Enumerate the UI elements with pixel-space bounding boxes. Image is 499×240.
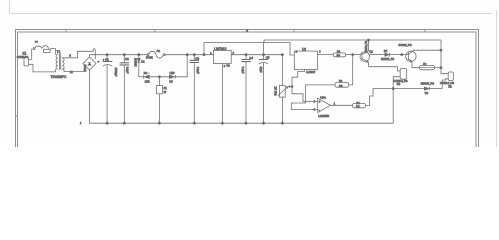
svg-text:2: 2 bbox=[296, 52, 298, 54]
svg-text:+ C1: + C1 bbox=[103, 57, 110, 61]
svg-text:+: + bbox=[319, 100, 321, 104]
svg-text:-: - bbox=[319, 108, 320, 112]
svg-text:F1: F1 bbox=[157, 49, 161, 53]
svg-text:1N4007_PG: 1N4007_PG bbox=[381, 58, 394, 61]
svg-text:LED: LED bbox=[170, 72, 175, 75]
svg-text:BD243_PG: BD243_PG bbox=[366, 41, 368, 53]
svg-text:8: 8 bbox=[69, 54, 71, 58]
svg-text:BC328_PG: BC328_PG bbox=[399, 43, 412, 47]
svg-text:D3: D3 bbox=[170, 81, 174, 84]
svg-text:K2: K2 bbox=[448, 84, 452, 88]
svg-text:LM317: LM317 bbox=[307, 70, 316, 74]
svg-text:+: + bbox=[98, 60, 100, 64]
svg-text:TRANSFO: TRANSFO bbox=[51, 75, 67, 79]
svg-text:LM358N: LM358N bbox=[318, 114, 329, 118]
svg-text:U3A: U3A bbox=[320, 95, 326, 99]
svg-text:K3: K3 bbox=[397, 82, 401, 86]
svg-text:47µF: 47µF bbox=[259, 67, 263, 73]
svg-text:1N4007_PG: 1N4007_PG bbox=[421, 83, 434, 86]
svg-text:1N4148: 1N4148 bbox=[134, 57, 137, 66]
svg-text:2: 2 bbox=[314, 110, 316, 112]
svg-text:3: 3 bbox=[319, 52, 321, 54]
svg-text:C2: C2 bbox=[125, 57, 129, 61]
svg-text:0.1µF: 0.1µF bbox=[241, 67, 245, 74]
svg-text:D5: D5 bbox=[384, 50, 388, 53]
svg-text:FUSE: FUSE bbox=[146, 57, 153, 60]
svg-text:1k: 1k bbox=[164, 91, 167, 94]
svg-text:0.1µF: 0.1µF bbox=[196, 67, 200, 74]
svg-text:LED: LED bbox=[145, 81, 150, 84]
svg-text:3: 3 bbox=[246, 29, 248, 33]
svg-text:Q1: Q1 bbox=[369, 49, 373, 53]
svg-text:3: 3 bbox=[314, 102, 316, 104]
svg-text:F4: F4 bbox=[35, 42, 38, 44]
svg-text:T1: T1 bbox=[57, 50, 61, 54]
svg-text:CONN-2_PG: CONN-2_PG bbox=[440, 82, 454, 85]
svg-text:U1: U1 bbox=[226, 63, 230, 67]
svg-text:RV1 1K: RV1 1K bbox=[274, 86, 278, 95]
svg-text:4700µF: 4700µF bbox=[114, 68, 118, 77]
svg-text:D6: D6 bbox=[425, 92, 429, 95]
svg-text:0.1µF: 0.1µF bbox=[125, 67, 129, 74]
svg-text:R1: R1 bbox=[164, 87, 168, 90]
svg-text:11: 11 bbox=[70, 70, 73, 74]
svg-text:C5: C5 bbox=[266, 56, 270, 60]
svg-text:CONN-2_PG: CONN-2_PG bbox=[394, 80, 408, 83]
svg-text:1: 1 bbox=[80, 122, 82, 125]
svg-text:C4: C4 bbox=[249, 56, 253, 60]
svg-text:W04M: W04M bbox=[84, 65, 87, 72]
svg-text:D1: D1 bbox=[141, 61, 145, 64]
svg-text:C3: C3 bbox=[195, 56, 199, 60]
